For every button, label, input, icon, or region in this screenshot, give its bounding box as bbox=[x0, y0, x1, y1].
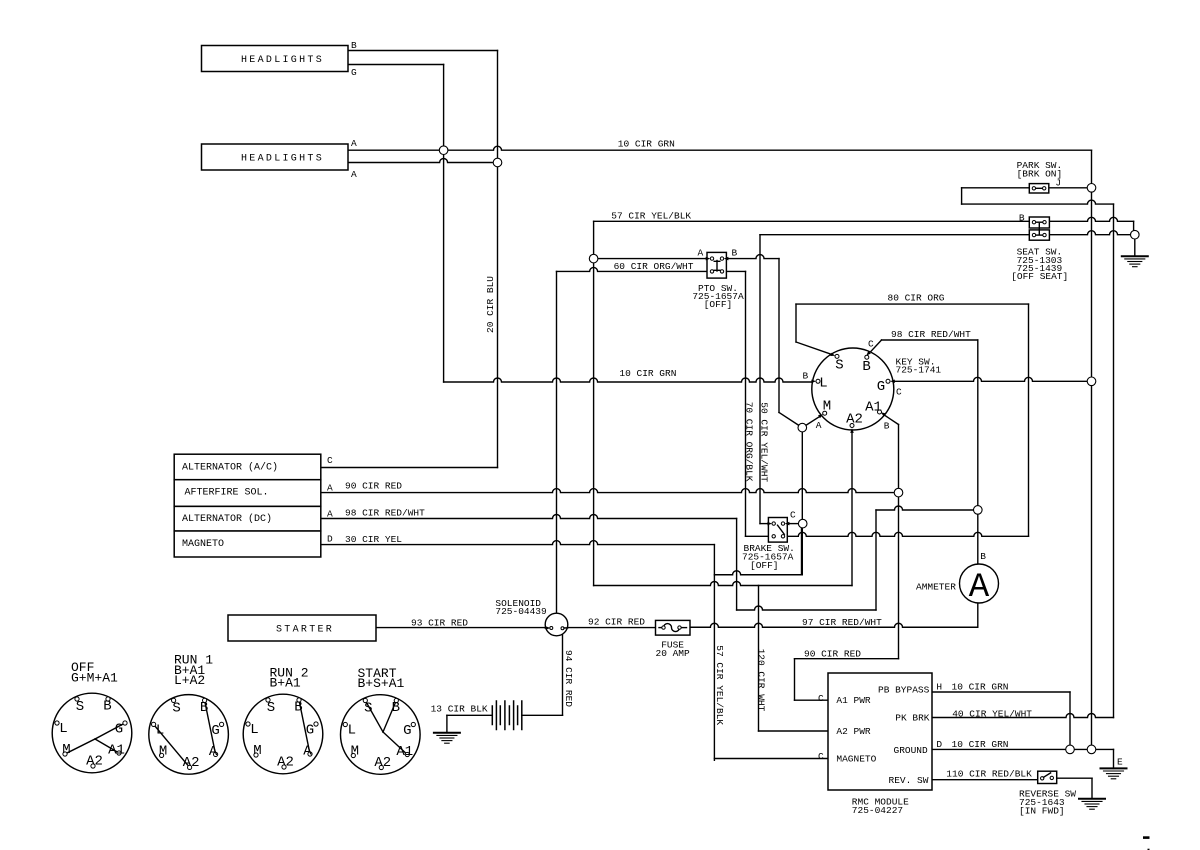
svg-text:S: S bbox=[267, 700, 275, 716]
svg-text:A: A bbox=[351, 138, 357, 149]
svg-text:M: M bbox=[253, 743, 261, 759]
svg-text:B: B bbox=[200, 700, 208, 716]
svg-text:L: L bbox=[59, 721, 67, 737]
svg-text:B+A1: B+A1 bbox=[270, 676, 301, 691]
svg-text:G: G bbox=[403, 723, 411, 739]
svg-text:A: A bbox=[327, 482, 333, 493]
svg-text:A1: A1 bbox=[396, 744, 413, 760]
svg-text:M: M bbox=[159, 743, 167, 759]
svg-text:B: B bbox=[103, 699, 111, 715]
svg-text:M: M bbox=[351, 744, 359, 760]
svg-text:M: M bbox=[823, 399, 831, 415]
svg-text:94 CIR RED: 94 CIR RED bbox=[563, 650, 574, 707]
svg-text:A2: A2 bbox=[846, 412, 863, 428]
svg-text:120 CIR WHT: 120 CIR WHT bbox=[756, 649, 767, 712]
svg-text:ALTERNATOR (A/C): ALTERNATOR (A/C) bbox=[182, 462, 278, 474]
svg-text:725-04439: 725-04439 bbox=[495, 606, 547, 617]
svg-text:H: H bbox=[936, 682, 942, 693]
svg-text:S: S bbox=[835, 358, 843, 374]
svg-text:PB BYPASS: PB BYPASS bbox=[878, 684, 930, 695]
svg-text:S: S bbox=[76, 699, 84, 715]
svg-text:98 CIR RED/WHT: 98 CIR RED/WHT bbox=[891, 329, 971, 340]
svg-text:L: L bbox=[819, 376, 827, 392]
svg-text:725-1741: 725-1741 bbox=[896, 365, 942, 376]
svg-text:A2 PWR: A2 PWR bbox=[836, 726, 871, 737]
svg-text:PK BRK: PK BRK bbox=[895, 713, 930, 724]
svg-text:B: B bbox=[803, 371, 809, 382]
svg-text:B: B bbox=[980, 551, 986, 562]
svg-text:92 CIR RED: 92 CIR RED bbox=[588, 617, 645, 628]
svg-text:HEADLIGHTS: HEADLIGHTS bbox=[241, 55, 324, 66]
svg-text:10 CIR GRN: 10 CIR GRN bbox=[952, 682, 1009, 693]
svg-text:93 CIR RED: 93 CIR RED bbox=[411, 618, 468, 629]
svg-text:A2: A2 bbox=[183, 755, 200, 771]
svg-text:70 CIR ORG/BLK: 70 CIR ORG/BLK bbox=[744, 402, 755, 482]
svg-text:90 CIR RED: 90 CIR RED bbox=[804, 649, 861, 660]
svg-text:A: A bbox=[209, 744, 218, 760]
svg-text:G: G bbox=[877, 379, 885, 395]
svg-text:20 CIR BLU: 20 CIR BLU bbox=[485, 276, 496, 333]
svg-text:B: B bbox=[1019, 213, 1025, 224]
svg-text:13 CIR BLK: 13 CIR BLK bbox=[431, 704, 488, 715]
svg-text:G: G bbox=[306, 723, 314, 739]
svg-text:B: B bbox=[392, 700, 400, 716]
svg-text:98 CIR RED/WHT: 98 CIR RED/WHT bbox=[345, 507, 425, 518]
svg-text:57 CIR YEL/BLK: 57 CIR YEL/BLK bbox=[611, 211, 691, 222]
svg-text:L: L bbox=[156, 722, 164, 738]
svg-text:[OFF]: [OFF] bbox=[750, 560, 779, 571]
svg-text:C: C bbox=[790, 510, 796, 521]
svg-text:A1 PWR: A1 PWR bbox=[836, 695, 871, 706]
svg-text:10 CIR GRN: 10 CIR GRN bbox=[618, 139, 675, 150]
svg-text:S: S bbox=[172, 700, 180, 716]
svg-text:REV. SW: REV. SW bbox=[889, 775, 929, 786]
svg-text:J: J bbox=[1055, 178, 1061, 189]
svg-text:[OFF]: [OFF] bbox=[704, 299, 733, 310]
svg-text:80 CIR ORG: 80 CIR ORG bbox=[888, 292, 945, 303]
svg-text:[OFF SEAT]: [OFF SEAT] bbox=[1011, 271, 1068, 282]
svg-text:MAGNETO: MAGNETO bbox=[836, 754, 876, 765]
svg-text:A: A bbox=[351, 169, 357, 180]
svg-text:40 CIR YEL/WHT: 40 CIR YEL/WHT bbox=[952, 708, 1032, 719]
svg-text:90 CIR RED: 90 CIR RED bbox=[345, 480, 402, 491]
svg-text:A2: A2 bbox=[277, 755, 294, 771]
svg-text:A1: A1 bbox=[108, 743, 125, 759]
svg-text:MAGNETO: MAGNETO bbox=[182, 539, 224, 550]
svg-text:A: A bbox=[969, 569, 990, 607]
svg-text:C: C bbox=[818, 751, 824, 762]
svg-text:E: E bbox=[1117, 757, 1123, 768]
svg-text:10 CIR GRN: 10 CIR GRN bbox=[619, 368, 676, 379]
svg-text:D: D bbox=[327, 534, 333, 545]
svg-text:GROUND: GROUND bbox=[894, 745, 929, 756]
svg-text:B: B bbox=[351, 40, 357, 51]
svg-text:20 AMP: 20 AMP bbox=[656, 648, 691, 659]
svg-text:30 CIR YEL: 30 CIR YEL bbox=[345, 534, 402, 545]
svg-text:B: B bbox=[862, 359, 870, 375]
svg-text:A: A bbox=[816, 420, 822, 431]
svg-text:L: L bbox=[250, 722, 258, 738]
svg-text:ALTERNATOR (DC): ALTERNATOR (DC) bbox=[182, 513, 272, 525]
svg-text:[IN FWD]: [IN FWD] bbox=[1019, 806, 1065, 817]
svg-text:AFTERFIRE SOL.: AFTERFIRE SOL. bbox=[185, 488, 269, 499]
svg-text:M: M bbox=[62, 742, 70, 758]
svg-text:A: A bbox=[327, 508, 333, 519]
svg-text:G: G bbox=[351, 67, 357, 78]
svg-text:C: C bbox=[818, 693, 824, 704]
svg-text:60 CIR ORG/WHT: 60 CIR ORG/WHT bbox=[614, 261, 694, 272]
svg-text:G: G bbox=[211, 723, 219, 739]
svg-text:A2: A2 bbox=[374, 755, 391, 771]
svg-text:A1: A1 bbox=[865, 400, 882, 416]
svg-text:L+A2: L+A2 bbox=[174, 673, 205, 688]
svg-text:STARTER: STARTER bbox=[276, 625, 334, 636]
svg-text:A2: A2 bbox=[86, 754, 103, 770]
svg-text:HEADLIGHTS: HEADLIGHTS bbox=[241, 154, 324, 165]
svg-text:G: G bbox=[115, 722, 123, 738]
svg-text:D: D bbox=[936, 739, 942, 750]
svg-text:57 CIR YEL/BLK: 57 CIR YEL/BLK bbox=[714, 645, 725, 725]
svg-text:C: C bbox=[327, 455, 333, 466]
svg-text:B: B bbox=[732, 248, 738, 259]
svg-text:B+S+A1: B+S+A1 bbox=[358, 676, 405, 691]
svg-text:AMMETER: AMMETER bbox=[916, 581, 956, 592]
svg-text:110 CIR RED/BLK: 110 CIR RED/BLK bbox=[946, 768, 1032, 779]
svg-text:A: A bbox=[698, 248, 704, 259]
svg-text:L: L bbox=[348, 723, 356, 739]
svg-text:C: C bbox=[896, 387, 902, 398]
svg-text:50 CIR YEL/WHT: 50 CIR YEL/WHT bbox=[759, 402, 770, 482]
svg-text:10 CIR GRN: 10 CIR GRN bbox=[952, 739, 1009, 750]
svg-text:C: C bbox=[868, 339, 874, 350]
svg-text:A: A bbox=[303, 744, 312, 760]
svg-text:97 CIR RED/WHT: 97 CIR RED/WHT bbox=[802, 617, 882, 628]
svg-text:725-04227: 725-04227 bbox=[852, 805, 903, 816]
svg-text:S: S bbox=[364, 701, 372, 717]
svg-text:B: B bbox=[294, 700, 302, 716]
svg-text:B: B bbox=[884, 421, 890, 432]
svg-text:G+M+A1: G+M+A1 bbox=[71, 671, 118, 686]
